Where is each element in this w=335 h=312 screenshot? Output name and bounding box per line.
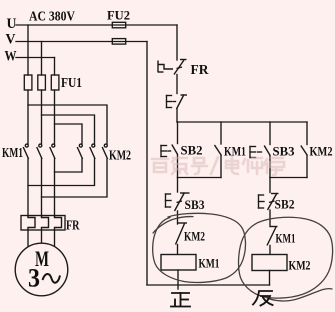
svg-text:U: U bbox=[7, 16, 17, 32]
svg-text:KM2: KM2 bbox=[184, 229, 205, 244]
wire split bar bbox=[177, 121, 307, 123]
wire FR to motor 1 bbox=[27, 230, 29, 247]
wire phase1 to KM1 bbox=[27, 90, 29, 144]
thermal relay FR heaters box bbox=[21, 216, 65, 231]
wire phase2 to KM1 bbox=[41, 90, 43, 144]
svg-text:FR: FR bbox=[66, 218, 80, 233]
svg-text:FR: FR bbox=[191, 62, 209, 77]
wire KM2 pole2 out bbox=[28, 159, 95, 186]
wire bottom rail bbox=[147, 284, 270, 286]
wire FR to SB1 bbox=[176, 75, 178, 94]
wire SB2 to join bbox=[177, 155, 179, 178]
wire U to KM2 pole3 bbox=[28, 105, 107, 144]
wire FR to motor 3 bbox=[54, 230, 56, 247]
pushbutton SB2 start NO bbox=[161, 145, 178, 157]
pushbutton SB3 NC interlock bbox=[166, 193, 190, 212]
svg-text:AC 380V: AC 380V bbox=[29, 10, 75, 25]
contact KM2 pole3 bbox=[102, 144, 107, 159]
contact KM2 NC interlock bbox=[176, 223, 188, 245]
FR heater element symbol bbox=[157, 61, 159, 73]
wire W to KM2 pole1 bbox=[55, 124, 83, 144]
contact KM1 pole2 bbox=[37, 144, 42, 159]
contact KM1 pole3 bbox=[50, 144, 55, 159]
wire coil KM1 to rail bbox=[177, 270, 179, 289]
wire U bus corner down control feed bbox=[176, 25, 178, 60]
svg-text:KM2: KM2 bbox=[289, 258, 311, 273]
coil KM2 bbox=[252, 255, 287, 271]
annotation circle right bbox=[239, 217, 333, 298]
wire SB3NC to KM2NC bbox=[177, 211, 179, 224]
contact KM2 aux NO bbox=[301, 146, 308, 156]
contact KM1 aux NO bbox=[215, 145, 222, 156]
svg-text:SB2: SB2 bbox=[181, 143, 203, 158]
label zheng (forward) bbox=[171, 293, 190, 307]
contact KM2 pole1 bbox=[77, 144, 82, 159]
svg-text:V: V bbox=[6, 32, 16, 48]
svg-text:KM1: KM1 bbox=[224, 144, 246, 159]
svg-text:3: 3 bbox=[28, 264, 40, 293]
contact KM1 NC interlock bbox=[267, 227, 278, 246]
wire left join bar bbox=[178, 177, 222, 179]
wire KM2 pole1 out bbox=[55, 159, 83, 172]
pushbutton SB3 start NO bbox=[250, 146, 270, 158]
wire KM2 aux to join bbox=[306, 156, 308, 178]
wire W drop bbox=[54, 58, 56, 76]
svg-text:KM2: KM2 bbox=[310, 144, 333, 159]
coil KM1 bbox=[161, 255, 196, 271]
annotation circle left overlap stroke bbox=[153, 217, 193, 233]
wire KM2NC to coil bbox=[177, 245, 179, 255]
wire SB3 to join bbox=[269, 156, 271, 178]
wire V to KM2 pole2 bbox=[42, 115, 95, 144]
svg-text:FU1: FU1 bbox=[61, 75, 82, 90]
svg-text:KM2: KM2 bbox=[109, 148, 131, 163]
FR heater element 2 bbox=[42, 216, 49, 230]
wire KM1 pole3 down bbox=[54, 159, 56, 216]
wire U bus bbox=[16, 24, 177, 26]
wire branch KM1 aux drop bbox=[220, 122, 222, 144]
wire branch SB3 drop bbox=[269, 122, 271, 145]
wire KM1 pole2 down bbox=[41, 159, 43, 216]
wire U drop bbox=[27, 25, 29, 75]
svg-text:FU2: FU2 bbox=[107, 8, 130, 23]
contact FR NC control bbox=[174, 60, 187, 75]
watermark baijiahao bbox=[152, 157, 284, 175]
wire KM2 pole3 out bbox=[42, 159, 108, 197]
fuse FU1c bbox=[51, 75, 59, 90]
svg-text:SB3: SB3 bbox=[185, 197, 205, 212]
annotation tail from fan bbox=[267, 289, 332, 301]
contact KM1 pole1 bbox=[23, 144, 28, 159]
wire KM1NC to coil bbox=[269, 246, 271, 255]
pushbutton SB1 stop NC bbox=[167, 95, 188, 110]
motor M bbox=[15, 243, 68, 296]
wire right join bar bbox=[270, 177, 307, 179]
fuse FU1a bbox=[24, 75, 32, 90]
wire phase3 to KM1 bbox=[54, 90, 56, 144]
contact KM2 pole2 bbox=[90, 144, 95, 159]
wire V bus bbox=[16, 41, 147, 43]
FR heater element 1 bbox=[28, 216, 35, 230]
wire KM1 pole1 down bbox=[27, 159, 29, 216]
wire branch SB2 drop bbox=[177, 122, 179, 144]
annotation circle left bbox=[153, 213, 246, 282]
svg-text:W: W bbox=[5, 49, 17, 65]
svg-text:KM1: KM1 bbox=[276, 231, 296, 246]
wire SB2NC to KM1NC bbox=[269, 210, 271, 227]
fuse FU1b bbox=[38, 75, 46, 90]
FR heater element 3 bbox=[55, 216, 62, 230]
wire W bus bbox=[16, 57, 55, 59]
fuse FU2b bbox=[112, 39, 125, 45]
wire coil KM2 to rail bbox=[269, 271, 271, 286]
svg-text:SB3: SB3 bbox=[273, 144, 295, 159]
wire V drop bbox=[41, 42, 43, 76]
pushbutton SB2 NC interlock bbox=[259, 193, 279, 210]
fuse FU2a bbox=[112, 22, 125, 28]
wire SB1 to split bbox=[176, 109, 178, 122]
wire branch KM2 aux drop bbox=[306, 122, 308, 145]
wire left branch down bbox=[177, 178, 179, 193]
wire KM1 aux to join bbox=[220, 156, 222, 178]
label fan (reverse) bbox=[253, 291, 273, 306]
svg-text:KM1: KM1 bbox=[2, 145, 23, 160]
svg-text:KM1: KM1 bbox=[199, 256, 220, 271]
wire FR to motor 2 bbox=[41, 230, 43, 244]
wire V rail down bbox=[146, 42, 148, 286]
wire right branch down bbox=[269, 178, 271, 193]
svg-text:SB2: SB2 bbox=[275, 197, 295, 212]
